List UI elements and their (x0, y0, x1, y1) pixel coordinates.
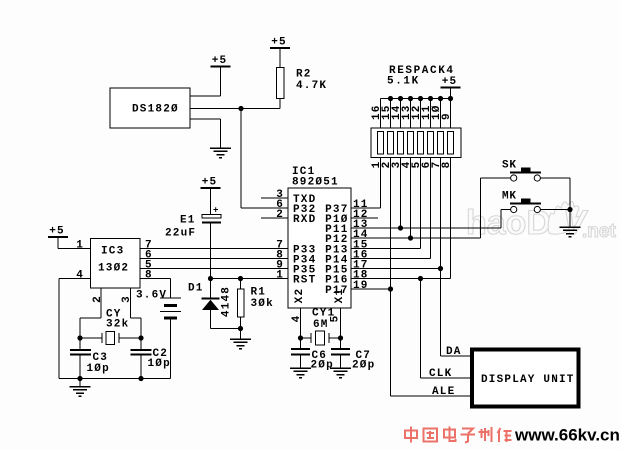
wire to MK left terminal (501, 209, 510, 211)
wire pin4 down to rail (58, 279, 60, 379)
svg-text:DISPLAY UNIT: DISPLAY UNIT (481, 374, 575, 386)
wire RST net (211, 278, 289, 280)
wire TXD stub (261, 197, 288, 199)
svg-text:+5: +5 (271, 37, 287, 49)
svg-text:2Øp: 2Øp (311, 360, 334, 372)
svg-text:22uF: 22uF (165, 228, 196, 240)
wire IC3 pin7 to P33 (140, 248, 288, 250)
capacitor C3 10p (70, 338, 110, 379)
respack element 6 (428, 132, 434, 155)
svg-text:E1: E1 (180, 215, 196, 227)
svg-text:+5: +5 (212, 55, 228, 67)
junction X2/C6 (298, 335, 303, 340)
wire SK right (541, 177, 571, 179)
svg-text:+5: +5 (442, 76, 458, 88)
+5 supply (DS1820) (211, 55, 231, 67)
junction on common bus (408, 96, 413, 101)
svg-text:4: 4 (291, 315, 303, 323)
wire P37 to respack pin1 (351, 207, 381, 209)
wire D1 anode to R1 bottom (211, 328, 241, 330)
svg-text:2: 2 (92, 295, 104, 303)
junction rail/C2 (138, 376, 143, 381)
wire CLK down (420, 279, 422, 379)
wire to IC3 pin1 (58, 248, 91, 250)
junction P11/respack pin3 (398, 225, 403, 230)
wire respack pin8 down to P16 line (450, 158, 452, 279)
junction on common bus (438, 96, 443, 101)
wire P10 stub (351, 217, 378, 219)
junction crystal left (77, 335, 82, 340)
svg-text:4148: 4148 (221, 286, 233, 317)
svg-text:X1: X1 (334, 288, 346, 304)
wire E1 to RST net (210, 224, 212, 279)
svg-text:R2: R2 (296, 69, 312, 81)
svg-text:4.7K: 4.7K (296, 80, 327, 92)
wire IC3 pin4 (59, 278, 91, 280)
IC1 internal pin names (293, 194, 349, 297)
junction SK/MK (567, 207, 572, 212)
wire to crystal left (301, 337, 312, 339)
wire to +5 (220, 67, 222, 97)
wire down (569, 178, 571, 210)
wire to ground (79, 379, 81, 387)
wire DQ down to P32 (240, 109, 242, 209)
svg-text:2Øp: 2Øp (352, 360, 375, 372)
wire R2 to DQ net (279, 99, 281, 109)
svg-text:SK: SK (502, 160, 517, 172)
svg-text:+: + (213, 206, 218, 216)
respack element 5 (418, 132, 424, 155)
capacitor C2 10p (131, 338, 171, 379)
svg-text:3Øk: 3Øk (251, 298, 274, 310)
svg-text:3: 3 (121, 295, 133, 303)
resistor pack RESPACK4 5.1K (371, 65, 461, 158)
resistor R2 (276, 68, 284, 99)
svg-text:R1: R1 (251, 287, 267, 299)
wire respack pin6 down to P14 line (430, 158, 432, 259)
wire respack pin1 down to P37 line (380, 158, 382, 209)
watermark haoDIY.net (466, 202, 616, 242)
svg-text:CLK: CLK (429, 368, 452, 380)
svg-text:IC3: IC3 (101, 246, 124, 258)
wire respack pin2 down to ALE (390, 158, 392, 397)
svg-text:19: 19 (353, 280, 369, 292)
wire respack pin5 down to P13 line (420, 158, 422, 249)
junction X1/C7 (338, 335, 343, 340)
wire IC3 pin3 down (130, 288, 132, 318)
svg-text:3.6V: 3.6V (136, 290, 167, 302)
ground (buttons) (560, 227, 581, 237)
wire respack pin4 down to P12 line (410, 158, 412, 239)
capacitor C6 20p (291, 338, 334, 372)
wire P14 line (351, 258, 431, 260)
svg-text:RXD: RXD (293, 214, 316, 226)
wire P32 to DQ (241, 207, 288, 209)
svg-text:6M: 6M (313, 319, 329, 331)
wire +5 to bus (450, 88, 452, 99)
wire CLK (421, 377, 471, 379)
wire to crystal left (80, 337, 102, 339)
wire to crystal right (329, 337, 341, 339)
wire P12 line (351, 237, 481, 239)
wire respack pin 9 to bus (450, 99, 452, 129)
junction P12/respack pin4 (408, 235, 413, 240)
junction on common bus (448, 96, 453, 101)
wire respack pin 15 to bus (390, 99, 392, 129)
wire to ground (569, 210, 571, 228)
wire IC3 pin6 to P34 (140, 258, 288, 260)
svg-text:4: 4 (76, 270, 84, 282)
svg-text:1: 1 (276, 270, 284, 282)
wire +5 down (57, 237, 59, 249)
wire P13 line (351, 248, 421, 250)
wire respack common bus (381, 98, 451, 100)
junction on common bus (428, 96, 433, 101)
wire bottom rail (59, 378, 171, 380)
svg-text:892Ø51: 892Ø51 (292, 177, 339, 189)
wire P16 line (351, 278, 451, 280)
svg-text:13Ø2: 13Ø2 (98, 263, 129, 275)
wire RXD stub (261, 217, 288, 219)
respack element 7 (438, 132, 444, 155)
wire up to SK (480, 178, 482, 238)
wire P15 line (351, 268, 441, 270)
svg-text:8: 8 (145, 270, 153, 282)
+5 supply (respack) (441, 76, 461, 88)
switch SK (502, 160, 541, 182)
crystal CY 32k (102, 309, 129, 345)
respack element 1 (378, 132, 384, 155)
ground (IC3 rail) (70, 387, 91, 397)
battery BT1 3.6V (136, 279, 181, 379)
svg-text:1Øp: 1Øp (87, 363, 110, 375)
svg-text:+5: +5 (49, 226, 65, 238)
junction RST/R1 (238, 276, 243, 281)
wire jog right (131, 317, 142, 319)
respack element 4 (408, 132, 414, 155)
+5 supply (IC3) (48, 226, 68, 238)
svg-text:.net: .net (582, 221, 616, 242)
op IC U1: microcontroller IC1 892051 (288, 166, 351, 308)
svg-text:MK: MK (502, 191, 517, 203)
ground (C6) (290, 368, 311, 378)
svg-text:RST: RST (293, 275, 316, 287)
wire respack pin 14 to bus (400, 99, 402, 129)
wire IC3 pin8 to battery (140, 278, 171, 280)
capacitor C7 20p (331, 338, 375, 372)
svg-text:D1: D1 (188, 283, 204, 295)
junction P16/CLK (418, 276, 423, 281)
wire P11 line (351, 227, 501, 229)
svg-text:+5: +5 (202, 177, 218, 189)
wire MK right (541, 209, 571, 211)
wire respack pin 10 to bus (440, 99, 442, 129)
wire to ground (220, 119, 222, 148)
wire RST to R1 (240, 279, 242, 290)
wire to SK left terminal (481, 177, 511, 179)
junction R1/D1/gnd (238, 326, 243, 331)
sensor DS1820 (110, 88, 190, 128)
svg-text:5.1K: 5.1K (387, 76, 420, 88)
wire X2 pin4 down (300, 308, 302, 338)
svg-text:CY1: CY1 (312, 308, 335, 320)
svg-text:www.66kv.cn: www.66kv.cn (514, 426, 620, 445)
+5 supply (R2) (270, 37, 290, 49)
node DQ junction (238, 106, 243, 111)
display unit box (472, 350, 579, 407)
svg-text:DS182Ø: DS182Ø (132, 104, 179, 116)
wire respack pin 16 to bus (380, 99, 382, 129)
wire DS1820 GND (190, 118, 221, 120)
svg-text:1Øp: 1Øp (148, 358, 171, 370)
ground (R1/D1) (230, 339, 251, 349)
diode D1 4148 (188, 279, 220, 329)
wire down to crystal node (79, 318, 81, 338)
capacitor E1 22uF electrolytic (165, 206, 221, 240)
wire DS1820 DQ net (190, 108, 280, 110)
ground (DS1820) (210, 148, 231, 158)
respack element 3 (398, 132, 404, 155)
crystal CY1 6M (311, 308, 335, 346)
wire to ground (240, 329, 242, 340)
resistor R1 (237, 289, 244, 317)
svg-text:9: 9 (441, 112, 453, 120)
wire to crystal right (119, 337, 141, 339)
wire down to crystal node (140, 318, 142, 338)
wire P17 line (351, 288, 391, 290)
junction RST/E1/D1 (208, 276, 213, 281)
junction on common bus (398, 96, 403, 101)
wire respack pin3 down to P11 line (400, 158, 402, 229)
wire ALE (391, 395, 471, 397)
junction P17/ALE (388, 286, 393, 291)
svg-text:X2: X2 (294, 288, 306, 304)
junction on common bus (418, 96, 423, 101)
wire respack pin 11 to bus (430, 99, 432, 129)
wire DS1820 VDD (190, 95, 221, 97)
svg-text:1: 1 (76, 240, 84, 252)
wire X1 pin5 down (340, 308, 342, 338)
wire R1 to gnd node (240, 317, 242, 329)
wire +5 to E1 (210, 188, 212, 214)
switch MK (502, 191, 541, 213)
ground (C7) (330, 368, 351, 378)
red footer: Chinese site watermark (405, 427, 512, 443)
wire IC3 pin5 to P35 (140, 268, 288, 270)
wire respack pin 13 to bus (410, 99, 412, 129)
wire respack pin 12 to bus (420, 99, 422, 129)
svg-text:2: 2 (276, 209, 284, 221)
wire jog left (80, 317, 101, 319)
wire IC3 pin2 down (100, 288, 102, 318)
wire up to MK (500, 210, 502, 229)
wire +5 to R2 (279, 48, 281, 68)
svg-text:DA: DA (446, 346, 462, 358)
wire respack pin7 down to DA (440, 158, 442, 357)
junction on common bus (388, 96, 393, 101)
svg-text:8: 8 (441, 161, 453, 169)
junction rail/C3 (77, 376, 82, 381)
+5 supply (E1) (201, 177, 221, 189)
respack element 8 (448, 132, 454, 155)
svg-text:32k: 32k (106, 319, 129, 331)
svg-text:ALE: ALE (432, 386, 455, 398)
op IC U3: RTC IC3 1302 (91, 239, 141, 289)
wire DA (441, 355, 471, 357)
junction P15/DA (438, 266, 443, 271)
junction crystal right (138, 335, 143, 340)
respack element 2 (388, 132, 394, 155)
